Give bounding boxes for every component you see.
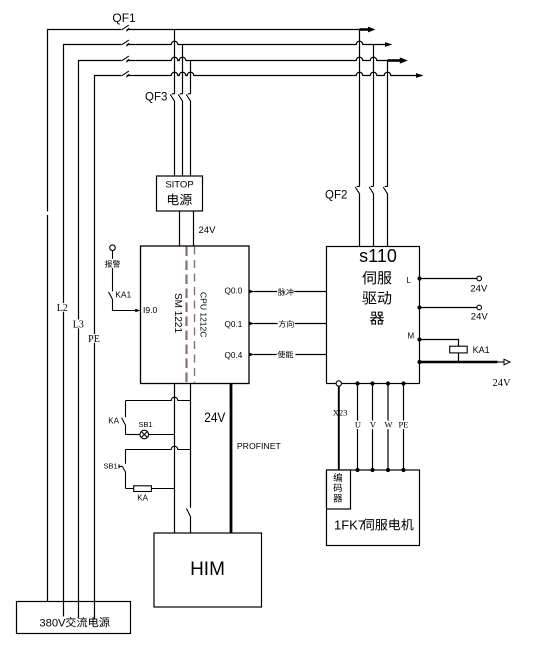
svg-text:s110: s110 (359, 246, 397, 266)
QF1 pole 4 (122, 71, 130, 77)
alarm lamp circle 报警 (110, 245, 116, 251)
W label (383, 421, 392, 430)
KA1 relay coil (450, 346, 468, 353)
coil branch bottom wire (126, 488, 175, 490)
Q0.0 output arrow (249, 290, 254, 294)
node rail junction (417, 360, 421, 364)
svg-text:L3: L3 (73, 320, 84, 331)
wire to lamp (126, 434, 141, 436)
SITOP feeder drop 2 (182, 45, 184, 94)
报警 label (105, 260, 120, 267)
node V terminal (370, 381, 374, 385)
indicator lamp SB1 (140, 430, 149, 439)
PE label (398, 421, 410, 430)
svg-text:L2: L2 (57, 303, 68, 314)
node W terminal (386, 381, 390, 385)
器 label (370, 312, 384, 325)
coil branch left wire (125, 450, 127, 464)
node PE motor terminal (401, 468, 405, 472)
PLC to HIM 24V wire B upper (190, 384, 192, 508)
PLC to HIM 24V wire A (174, 384, 176, 534)
QF3 pole 1 (170, 94, 175, 102)
svg-text:QF1: QF1 (112, 11, 136, 25)
PLC box CPU/SM (141, 246, 250, 384)
SITOP power supply box (157, 176, 203, 211)
svg-text:SITOP: SITOP (165, 180, 193, 191)
enable wire to s110 (254, 354, 327, 356)
left feeder PE vertical (94, 75, 96, 619)
node V motor terminal (370, 468, 374, 472)
Q0.1 output arrow (249, 322, 254, 326)
KA relay coil (134, 486, 152, 492)
U wire (357, 384, 359, 471)
SITOP to PLC 24V wire right (193, 211, 195, 246)
coil branch left wire lower (125, 472, 127, 488)
svg-text:380V: 380V (39, 617, 66, 629)
wire KA1 to I9.0 (113, 300, 136, 311)
SB1 pushbutton contact (119, 464, 126, 472)
svg-text:1FK7: 1FK7 (334, 517, 365, 532)
L1 arrow (360, 28, 369, 31)
encoder box 编码器 (327, 470, 351, 509)
svg-text:PE: PE (88, 334, 100, 345)
V wire (372, 384, 374, 471)
L3 arrow (388, 59, 401, 62)
left feeder L2 vertical (63, 44, 65, 617)
svg-text:24V: 24V (470, 284, 488, 295)
svg-text:PE: PE (399, 420, 409, 430)
node L junction (417, 276, 421, 280)
svg-text:I9.0: I9.0 (143, 305, 157, 315)
驱动 label (362, 291, 391, 305)
SITOP feeder drop 3 (190, 61, 192, 94)
rail arrow (504, 359, 510, 365)
lamp branch left wire lower (125, 426, 127, 435)
left feeder L1 vertical (47, 29, 49, 602)
svg-text:Q0.0: Q0.0 (225, 287, 243, 296)
s110 feeder drop 3 (387, 61, 389, 187)
L2 arrow (385, 42, 392, 47)
svg-text:SM 1221: SM 1221 (172, 293, 183, 333)
s110 feeder drop 2 (373, 45, 375, 187)
wire lamp to node A (149, 434, 175, 436)
bus line L2 horizontal (64, 44, 122, 46)
node U terminal (355, 381, 359, 385)
lamp branch top wire (126, 397, 191, 400)
Q0.4 output arrow (249, 353, 254, 357)
direction wire to s110 (254, 323, 327, 325)
24V rail wire (420, 361, 498, 364)
svg-text:SB1: SB1 (104, 461, 118, 470)
QF1 pole 3 (122, 56, 130, 62)
24V terminal circle 2 (477, 305, 482, 310)
SITOP feeder drop 1 (174, 30, 176, 94)
svg-text:X23: X23 (333, 408, 348, 418)
svg-text:SB1: SB1 (139, 420, 153, 429)
X23 encoder cable (338, 386, 340, 470)
380V AC source box (17, 602, 131, 634)
L2 wire label (56, 303, 69, 312)
QF2 pole 3 (383, 186, 388, 194)
QF2 pole 1 (355, 186, 360, 194)
svg-text:QF2: QF2 (325, 189, 347, 201)
svg-text:24V: 24V (493, 378, 512, 389)
bus line L1 horizontal (48, 29, 122, 31)
svg-text:CPU 1212C: CPU 1212C (199, 292, 209, 337)
coil branch top wire (126, 446, 191, 449)
wire to 24V terminal 2 (420, 307, 477, 309)
svg-text:M: M (408, 331, 415, 340)
伺服 label (362, 271, 391, 285)
svg-text:W: W (384, 420, 392, 430)
s110 servo drive box U3 (327, 247, 420, 384)
wire L to 24V terminal (420, 278, 477, 280)
脉冲 label (278, 288, 293, 295)
svg-text:PROFINET: PROFINET (237, 441, 282, 451)
QF3 pole 2 (178, 94, 183, 102)
QF3 pole 3 (186, 94, 191, 102)
HIM box (154, 533, 262, 607)
SITOP to PLC 24V wire left (179, 211, 181, 246)
node U motor terminal (355, 468, 359, 472)
bus line L3 horizontal (79, 60, 122, 62)
PLC to HIM 24V wire B lower (190, 517, 192, 533)
pulse wire to s110 (254, 291, 327, 293)
24V terminal circle 1 (477, 276, 482, 281)
svg-text:KA1: KA1 (473, 345, 490, 355)
X23 terminal circle (336, 381, 341, 386)
svg-text:24V: 24V (199, 225, 217, 236)
QF2 pole 2 (369, 186, 374, 194)
servo motor box 1FK7 (327, 470, 420, 546)
node M junction (417, 337, 421, 341)
alarm wire lower (112, 268, 114, 291)
QF1 pole 1 (122, 25, 130, 31)
svg-text:L: L (407, 276, 412, 285)
PE wire label (87, 334, 101, 343)
dashed partition line 1 (185, 247, 187, 384)
bus line PE horizontal (95, 75, 122, 77)
svg-text:KA: KA (108, 417, 119, 426)
svg-text:KA1: KA1 (115, 289, 131, 299)
lamp branch left wire (125, 401, 127, 418)
alarm wire upper (112, 251, 114, 259)
PROFINET wire (230, 384, 233, 534)
PE wire (403, 384, 405, 471)
svg-text:HIM: HIM (190, 559, 225, 580)
编码器 vertical label (333, 473, 342, 502)
wire M to KA1 coil (420, 340, 459, 347)
KA1 coil to rail wire (458, 353, 460, 362)
svg-text:QF3: QF3 (145, 91, 167, 103)
s110 feeder drop 1 (359, 30, 361, 187)
PE arrow (416, 73, 424, 78)
node junction 2 (417, 305, 421, 309)
KA contact (122, 418, 126, 426)
dashed partition line 2 (194, 247, 196, 384)
L3 wire label (72, 320, 85, 329)
方向 label (279, 320, 294, 327)
left feeder L3 vertical (78, 60, 80, 618)
svg-text:24V: 24V (204, 409, 226, 425)
I9.0 input arrow (135, 309, 140, 313)
contact on wire B (186, 509, 190, 518)
node W motor terminal (386, 468, 390, 472)
svg-text:24V: 24V (471, 312, 489, 323)
node PE terminal (401, 381, 405, 385)
W wire (387, 384, 389, 471)
svg-text:U: U (355, 420, 361, 430)
svg-text:V: V (370, 420, 377, 430)
使能 label (278, 351, 294, 358)
KA1 contact (109, 292, 113, 300)
SITOP 电源 label (168, 194, 192, 206)
svg-text:Q0.1: Q0.1 (225, 320, 243, 329)
U label (354, 421, 362, 430)
svg-text:Q0.4: Q0.4 (225, 351, 243, 360)
svg-text:KA: KA (137, 494, 148, 503)
V label (369, 421, 377, 430)
QF1 pole 2 (122, 40, 130, 46)
